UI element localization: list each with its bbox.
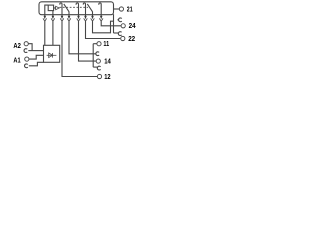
pin A2 plug: [43, 15, 47, 22]
mechanical link (dashed): [60, 6, 89, 8]
pin 22 plug: [84, 15, 88, 22]
contact 2 NC terminal (pin 22): [83, 3, 85, 15]
wire pin24 NO2 to terminal 24: [101, 21, 121, 26]
pin 11 plug: [67, 15, 71, 22]
contact 2 blade: [87, 4, 92, 12]
stub terminal 11: [93, 43, 97, 45]
wire pin14 NO1 to terminal 14: [79, 21, 97, 61]
contact 1 COM (pin 11): [68, 11, 70, 14]
socket receptacle A1: [25, 64, 28, 68]
wire pin11 COM1: [69, 21, 96, 54]
wire coil pin A1 down to input box: [52, 21, 54, 45]
socket receptacle A2: [24, 49, 27, 53]
NO hook upper (group 1x): [96, 52, 99, 56]
wire A1 to box: [29, 55, 44, 59]
NO hook lower (group 1x): [93, 66, 97, 68]
svg-text:14: 14: [104, 57, 111, 66]
svg-text:11: 11: [103, 39, 109, 48]
wire A2 to box: [28, 44, 32, 51]
terminal 11 circle: [97, 42, 101, 46]
coil pin stub: [52, 11, 54, 15]
NO hook upper (group 2x): [117, 19, 118, 21]
pin 14 plug: [77, 15, 81, 22]
coil actuator arrow: [54, 7, 56, 9]
svg-text:24: 24: [129, 21, 136, 30]
contact 1 NC terminal (pin 12): [60, 3, 62, 15]
pin 24 plug: [99, 15, 103, 22]
contact 1 NO terminal (pin 14): [76, 3, 78, 15]
bus for contact group 2x: [113, 14, 115, 33]
wire coil pin A2 down to input box: [44, 21, 46, 45]
terminal 22 circle: [121, 36, 125, 40]
pin 12 plug: [60, 15, 64, 22]
terminal 24 circle: [121, 24, 125, 28]
svg-text:A2: A2: [13, 41, 21, 50]
contact 2 COM (pin 21): [92, 11, 94, 14]
wire pin12 NC1 to terminal 12: [62, 21, 97, 76]
wire pin21 COM2 dogleg to bus: [93, 21, 114, 33]
svg-text:A1: A1: [13, 55, 20, 64]
svg-text:21: 21: [127, 4, 133, 13]
terminal 14 circle: [96, 59, 100, 63]
svg-text:12: 12: [104, 72, 110, 81]
relay outline (rounded rect): [39, 2, 114, 15]
coil pin riser: [45, 5, 48, 15]
NO hook lower (group 2x): [114, 32, 119, 34]
diode D1: [47, 54, 57, 56]
contact 1 blade: [64, 4, 69, 12]
wire/stub terminal 21: [114, 8, 120, 10]
terminal 21 circle: [119, 7, 123, 11]
contact 2 NO terminal (pin 24): [99, 3, 101, 15]
pin A1 plug: [51, 15, 55, 22]
terminal A1 circle: [25, 57, 29, 61]
pin 21 plug: [91, 15, 95, 22]
svg-text:22: 22: [128, 34, 135, 43]
bus for contact group 1x: [92, 44, 94, 67]
coil K1: [48, 5, 53, 11]
terminal 12 circle: [97, 74, 101, 78]
input circuit box: [44, 45, 60, 62]
wire pin22 NC2 to terminal 22: [86, 21, 121, 38]
socket pins with plug arrows: [43, 15, 103, 22]
terminal A2 circle: [24, 42, 28, 46]
